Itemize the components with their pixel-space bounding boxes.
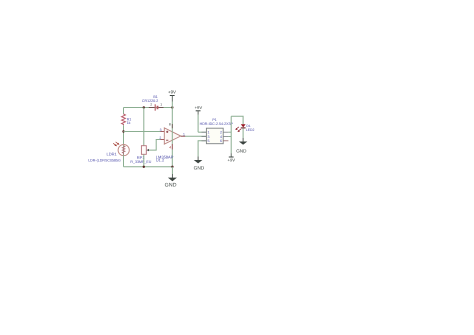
wire node A to op-amp pin 3 <box>124 131 165 133</box>
+9V stem (dark) <box>230 153 232 157</box>
wire op-amp output to header P1 pin 3 <box>181 135 207 137</box>
svg-text:+9V: +9V <box>195 105 203 110</box>
op-amp pin 4 stub <box>171 144 173 149</box>
svg-text:HDR-IDC-2.54-2X3P: HDR-IDC-2.54-2X3P <box>200 122 234 126</box>
wire header pin 5 to ground <box>198 141 206 157</box>
pin 2 stub <box>149 107 155 109</box>
pin 6 stub (unconnected) <box>223 140 228 142</box>
ground GND (header pin 5) <box>194 160 205 172</box>
svg-text:R_33MP_EU: R_33MP_EU <box>130 160 151 164</box>
svg-text:GND: GND <box>194 166 205 172</box>
svg-text:+9V: +9V <box>228 157 236 162</box>
node E junction (pin4 / ground rail / GND) <box>171 166 173 168</box>
wire left vertical R1 top segment <box>123 108 125 115</box>
battery B1 CR1220-2 <box>142 95 164 111</box>
svg-text:4: 4 <box>169 145 171 149</box>
svg-text:1k: 1k <box>127 121 131 125</box>
ground stem (header pin 5) <box>197 156 199 160</box>
svg-text:GND: GND <box>165 182 177 188</box>
power +9V (header pin 1) <box>195 105 207 132</box>
plus mark pin3 <box>166 131 168 133</box>
node A junction (R1 / LDR1 / op-amp pin3) <box>122 130 124 132</box>
svg-text:+9V: +9V <box>168 89 176 94</box>
svg-text:U1.2: U1.2 <box>156 157 165 162</box>
pin stubs left <box>202 131 207 133</box>
wire bottom ground rail <box>124 166 173 168</box>
svg-text:CR1220-2: CR1220-2 <box>142 99 158 103</box>
LDR1 photoresistor <box>88 142 129 167</box>
node B junction (top rail / RP1 branch) <box>143 106 145 108</box>
svg-text:1: 1 <box>160 103 162 107</box>
wire through LDR1 body <box>123 145 125 167</box>
node D junction (RP1 / ground rail) <box>143 166 145 168</box>
node C junction (top rail / +9V / op-amp V+) <box>171 106 173 108</box>
wire LED cathode to ground <box>242 128 244 138</box>
LED emission arrows <box>235 127 241 132</box>
svg-text:LDR-(LDRSC0585G: LDR-(LDRSC0585G <box>88 158 121 162</box>
minus mark pin2 <box>166 139 168 141</box>
wire op-amp V+ pin 8 / V- pin 4 vertical <box>171 108 173 167</box>
power +9V (main) <box>168 89 176 107</box>
op-amp pin 8 stub <box>171 124 173 128</box>
wire top rail from R1 top to +9V junction <box>124 107 173 109</box>
pin stubs right <box>223 131 228 133</box>
wiper arrow <box>146 149 149 151</box>
svg-text:3: 3 <box>160 128 162 132</box>
battery plates <box>154 104 156 110</box>
op-amp pin 1 stub <box>181 135 185 137</box>
ground GND (main rail) <box>165 167 177 189</box>
op-amp U1.2 LM358AP <box>156 108 185 167</box>
op-amp pin 3 stub <box>160 131 164 133</box>
svg-text:LDR1: LDR1 <box>107 151 118 156</box>
potentiometer RP1 <box>130 146 151 164</box>
wire +9V riser vertical <box>230 116 232 153</box>
svg-text:8: 8 <box>169 122 171 126</box>
pin 1 stub <box>158 107 163 109</box>
wire RP1 branch vertical <box>143 108 145 146</box>
ground GND (LED) <box>236 142 247 154</box>
svg-text:LED2: LED2 <box>246 128 255 132</box>
wire R1 bottom to node A <box>123 125 125 145</box>
svg-text:5: 5 <box>208 139 210 143</box>
wire riser to LED anode <box>231 116 243 124</box>
svg-text:GND: GND <box>236 149 247 154</box>
op-amp pin 2 stub <box>160 139 164 141</box>
svg-text:2: 2 <box>150 103 152 107</box>
wire header pins 2,4 to +9V riser <box>228 131 231 133</box>
svg-text:6: 6 <box>220 139 222 143</box>
resistor R1 <box>122 114 132 125</box>
wire RP1 bottom to ground rail <box>143 154 145 167</box>
power +9V (below header) <box>228 157 236 162</box>
wire RP1 wiper to op-amp pin 2 <box>149 140 164 151</box>
svg-text:2: 2 <box>159 136 161 140</box>
LDR1 light arrows <box>113 142 119 146</box>
LED D1 <box>235 124 254 132</box>
ground stem (LED) <box>242 138 244 142</box>
header P1 HDR-IDC-2.54-2X3P <box>200 118 234 144</box>
